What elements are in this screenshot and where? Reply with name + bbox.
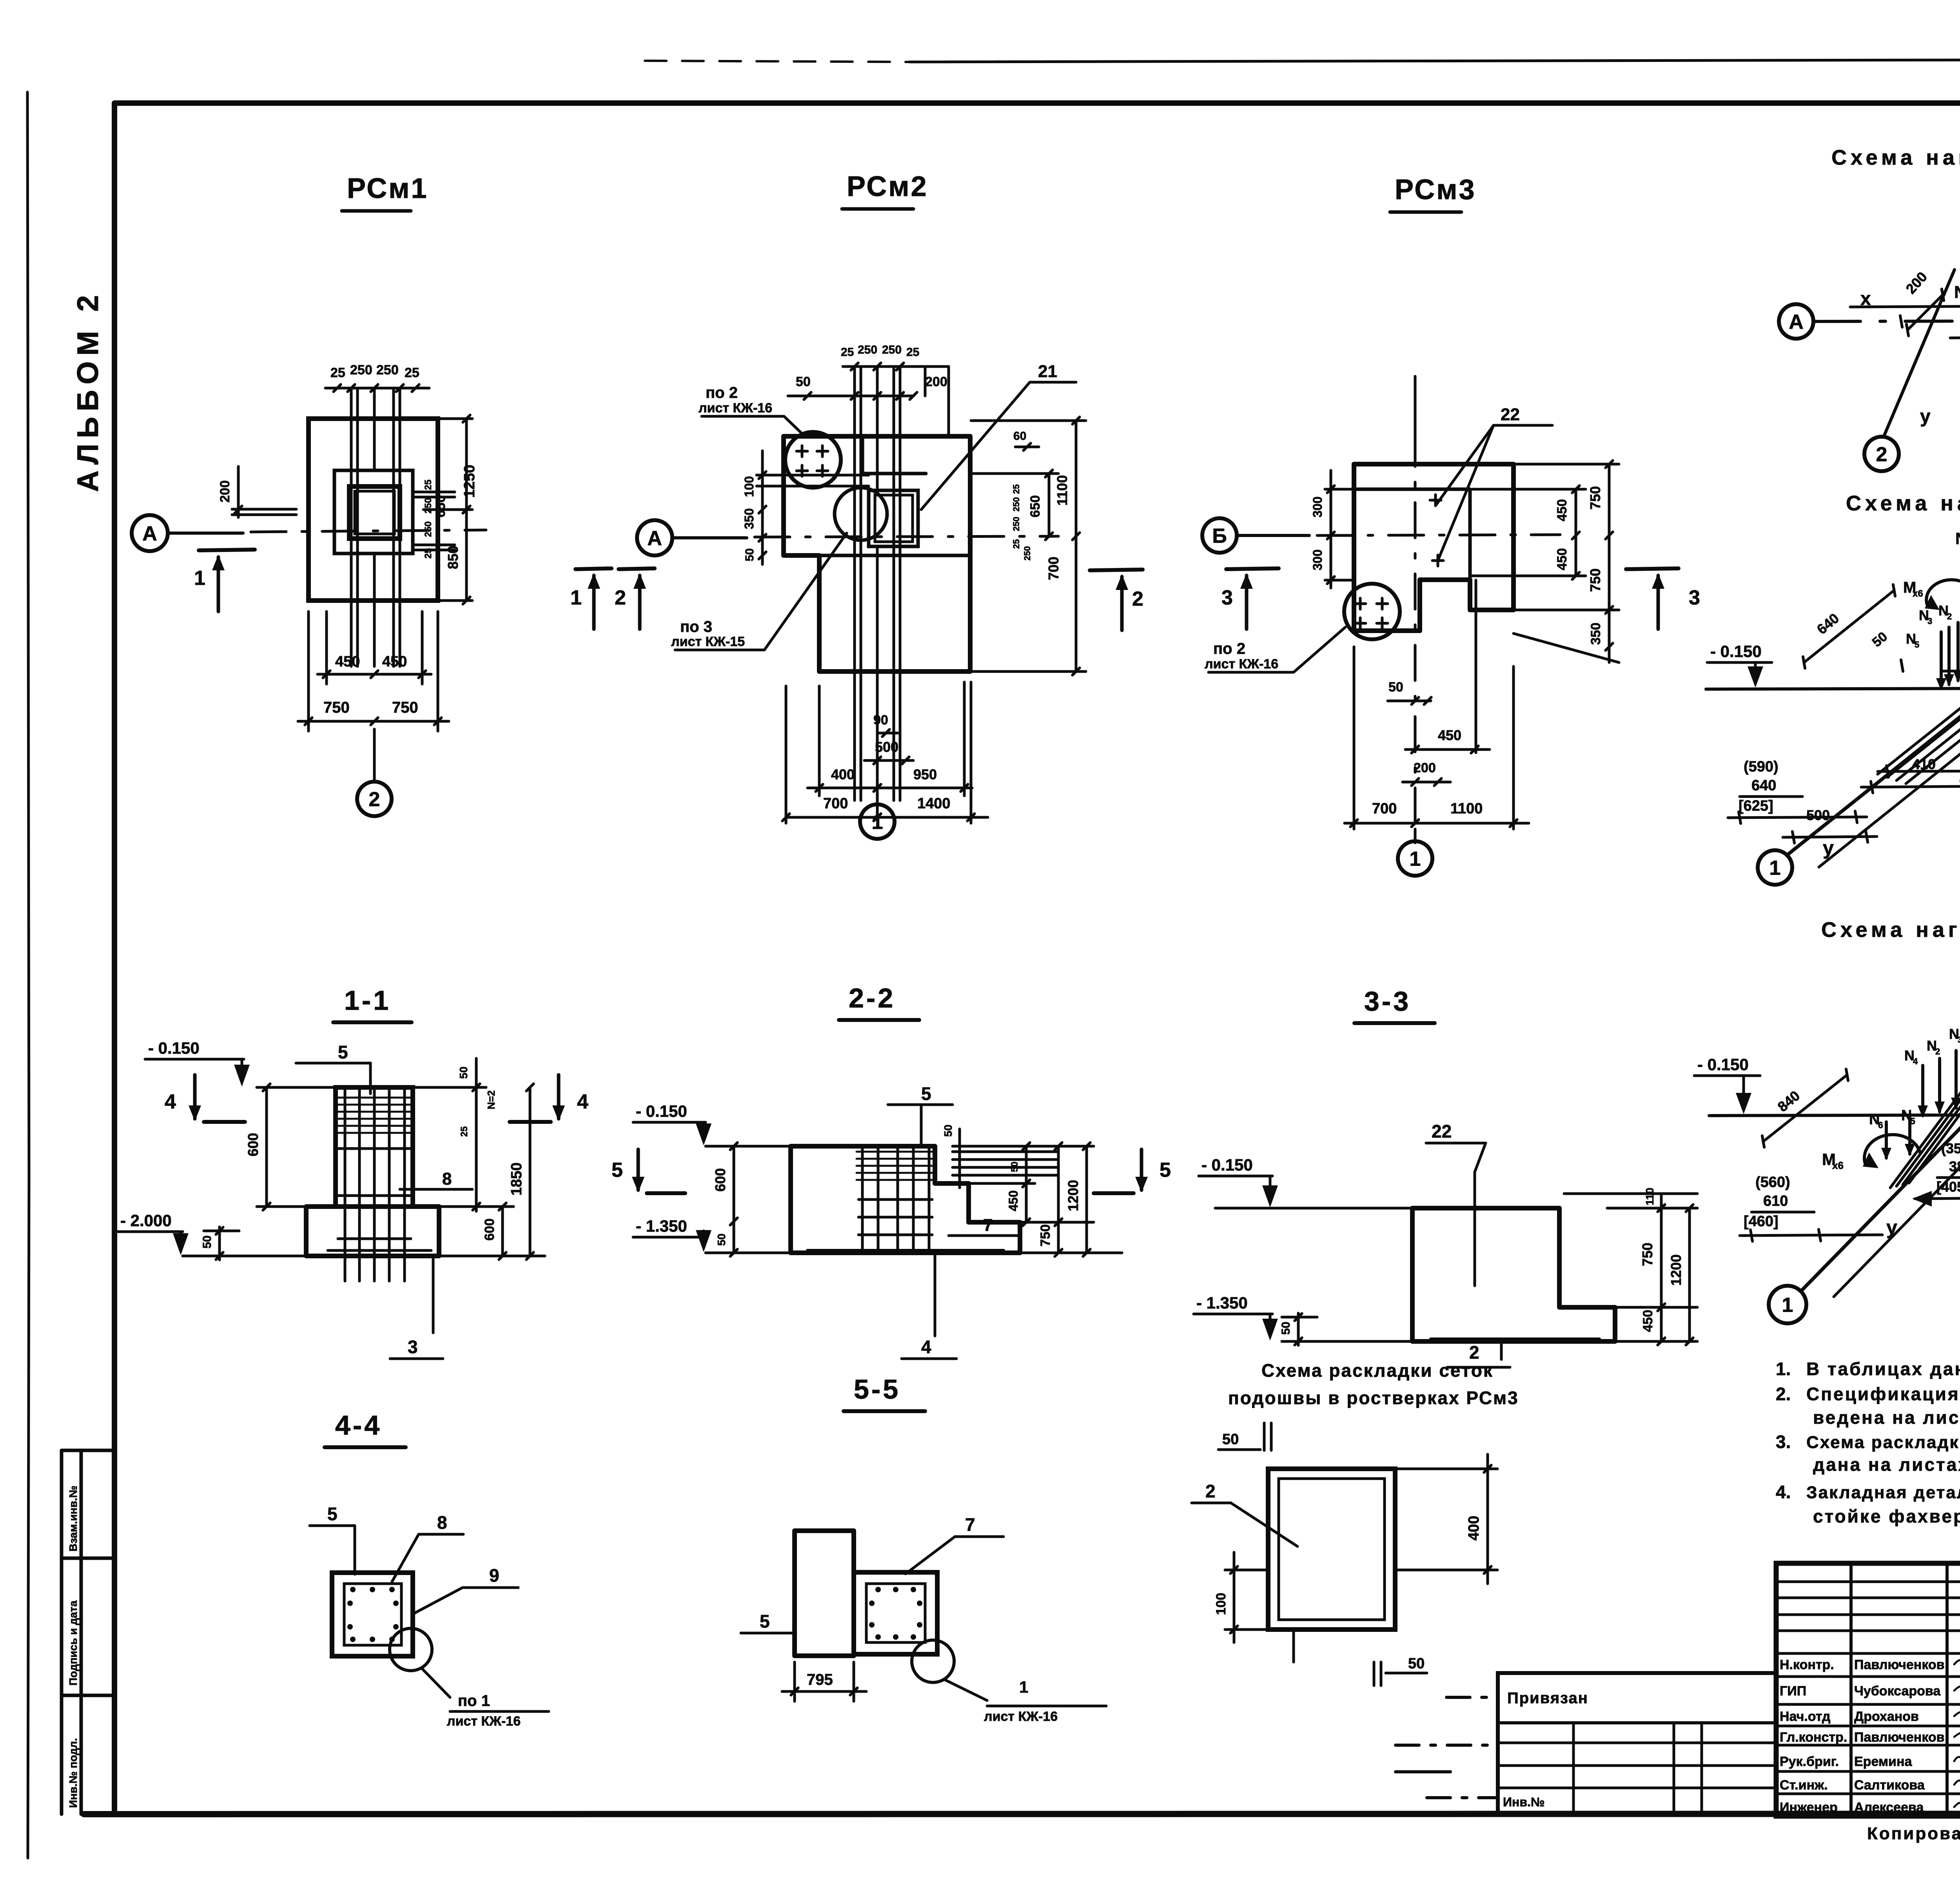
svg-text:2: 2: [1876, 443, 1887, 466]
svg-text:110: 110: [1644, 1188, 1656, 1205]
svg-text:АЛЬБОМ 2: АЛЬБОМ 2: [71, 290, 105, 492]
plan РСм1 outline: [309, 419, 438, 601]
svg-text:стойке фахверка СФ7.: стойке фахверка СФ7.: [1813, 1506, 1960, 1526]
svg-text:2: 2: [369, 788, 380, 811]
section 3-3 right dims: [1559, 1306, 1697, 1309]
plan РСм3 section marks 3: [1226, 568, 1279, 569]
plan РСм2 detail circle по2: [785, 432, 841, 488]
svg-text:250: 250: [882, 343, 902, 356]
svg-text:5: 5: [921, 1083, 931, 1104]
svg-text:5: 5: [1910, 1116, 1915, 1126]
svg-text:700: 700: [1045, 557, 1062, 580]
scheme3 pile bundle: [1890, 1024, 1960, 1188]
section 3-3 leader 2: [1500, 1342, 1503, 1359]
svg-text:795: 795: [807, 1671, 833, 1688]
svg-text:N: N: [1954, 283, 1960, 302]
plan РСм3 axis circle 1: [1414, 829, 1417, 843]
plan РСм2 axis А: [637, 520, 672, 555]
svg-text:250: 250: [1022, 546, 1032, 561]
svg-text:450: 450: [1555, 499, 1570, 521]
svg-text:3: 3: [1958, 1035, 1960, 1045]
svg-text:- 0.150: - 0.150: [1710, 642, 1762, 661]
svg-text:Схема нагрузок РСм2: Схема нагрузок РСм2: [1846, 492, 1960, 515]
svg-text:- 0.150: - 0.150: [636, 1102, 687, 1120]
section 3-3 small dim 50: [1282, 1316, 1317, 1319]
svg-text:(590): (590): [1744, 759, 1779, 775]
svg-text:8: 8: [437, 1512, 447, 1533]
svg-text:2: 2: [1132, 588, 1143, 610]
svg-text:1: 1: [872, 811, 883, 834]
svg-text:250: 250: [376, 363, 399, 377]
svg-text:дана на листах КЖ-15, 16.: дана на листах КЖ-15, 16.: [1813, 1454, 1960, 1475]
plan РСм3 axes: [1202, 518, 1237, 553]
svg-text:5: 5: [760, 1611, 770, 1631]
svg-text:Взам.инв.№: Взам.инв.№: [67, 1486, 79, 1552]
scheme1 axis ticks: [1900, 316, 1902, 327]
svg-text:1: 1: [1782, 1294, 1793, 1317]
svg-text:50: 50: [1279, 1322, 1292, 1335]
svg-text:x: x: [1860, 289, 1871, 309]
svg-text:Схема раскладки сеток подошвы: Схема раскладки сеток подошвы в ростверк…: [1806, 1433, 1960, 1452]
svg-text:РСм2: РСм2: [847, 171, 928, 202]
plan РСм3 detail circle по2: [1344, 584, 1400, 639]
mesh scheme dim 400: [1395, 1468, 1497, 1470]
title block left horizontals: [1776, 1581, 1960, 1583]
svg-text:50: 50: [1408, 1655, 1425, 1672]
svg-text:90: 90: [873, 713, 888, 728]
svg-text:4: 4: [1913, 1056, 1918, 1066]
svg-text:250: 250: [1011, 517, 1021, 531]
svg-text:1-1: 1-1: [344, 985, 391, 1016]
svg-text:Гл.констр.: Гл.констр.: [1780, 1730, 1847, 1745]
svg-text:2-2: 2-2: [849, 983, 895, 1013]
svg-text:450: 450: [1641, 1310, 1655, 1332]
svg-text:500: 500: [875, 739, 898, 755]
svg-text:Схема раскладки сеток: Схема раскладки сеток: [1261, 1360, 1494, 1381]
svg-text:Спецификация и выборка стали н: Спецификация и выборка стали на РСм1 ÷ Р…: [1806, 1384, 1960, 1404]
svg-text:Схема нагрузок РСм3: Схема нагрузок РСм3: [1821, 918, 1960, 942]
privyazan box: [1498, 1673, 1776, 1814]
plan РСм2 right dims: [971, 419, 1086, 422]
svg-text:- 0.150: - 0.150: [1697, 1055, 1749, 1074]
svg-text:25: 25: [841, 346, 854, 359]
svg-text:лист КЖ-16: лист КЖ-16: [1205, 657, 1278, 671]
section 1-1 foot: [306, 1207, 439, 1256]
svg-text:ведена на листах КЖ-20, 21.: ведена на листах КЖ-20, 21.: [1813, 1407, 1960, 1428]
section 1-1 right dims: [413, 1086, 486, 1089]
svg-text:[460]: [460]: [1744, 1213, 1779, 1230]
svg-text:25: 25: [423, 479, 434, 490]
svg-text:Копировал:: Копировал:: [1867, 1824, 1960, 1843]
svg-text:650: 650: [1028, 495, 1043, 517]
svg-text:50: 50: [743, 548, 756, 561]
svg-text:[405]: [405]: [1936, 1179, 1960, 1195]
svg-text:Еремина: Еремина: [1854, 1754, 1912, 1769]
svg-text:2: 2: [1935, 1047, 1940, 1056]
mesh scheme dim 50 bottom: [1373, 1662, 1376, 1686]
svg-text:3: 3: [1221, 586, 1233, 609]
svg-text:380: 380: [1949, 1158, 1960, 1174]
plan РСм2 bottom dims: [877, 732, 898, 735]
svg-text:лист КЖ-16: лист КЖ-16: [984, 1709, 1058, 1724]
svg-text:Закладная деталь поз. 21 прива: Закладная деталь поз. 21 приваривается к…: [1806, 1483, 1960, 1502]
svg-text:700: 700: [823, 795, 848, 812]
svg-text:1200: 1200: [1668, 1254, 1684, 1286]
plan РСм3 right dims 450 450 750 750 350: [1514, 463, 1619, 466]
svg-text:1400: 1400: [917, 795, 951, 812]
svg-text:500: 500: [1806, 807, 1830, 823]
svg-text:7: 7: [983, 1216, 993, 1235]
plan РСм1 axis circle 2: [373, 729, 376, 782]
plan РСм2 column plate: [869, 490, 918, 546]
svg-text:(560): (560): [1755, 1174, 1790, 1190]
svg-text:1: 1: [1019, 1678, 1028, 1696]
svg-text:350: 350: [742, 508, 756, 529]
svg-text:750: 750: [1587, 486, 1603, 510]
section 1-1 left dim 600: [257, 1086, 333, 1089]
svg-text:Павлюченков: Павлюченков: [1854, 1657, 1945, 1672]
section 1-1 leader 3: [432, 1257, 435, 1333]
mesh scheme rectangle: [1268, 1469, 1395, 1630]
plan РСм1 top dimension 25 250 250 25: [325, 387, 429, 390]
svg-text:3: 3: [408, 1337, 418, 1357]
scheme1 axis А: [1779, 304, 1813, 339]
plan РСм1 offset dim 200: [232, 508, 296, 511]
plan РСм1 bottom dims 450 450 750 750: [325, 612, 328, 684]
section 3-3 outline: [1412, 1208, 1615, 1341]
svg-text:650: 650: [433, 495, 448, 517]
svg-text:2: 2: [1947, 612, 1952, 621]
svg-text:50: 50: [457, 1067, 470, 1079]
scheme2 main diagonal: [1787, 563, 1960, 855]
scheme2 circle 1: [1758, 850, 1792, 885]
svg-text:3-3: 3-3: [1364, 986, 1411, 1016]
section 2-2 right dims: [969, 1182, 1035, 1185]
svg-text:N=2: N=2: [485, 1091, 497, 1109]
section 2-2 leader 4: [934, 1254, 936, 1336]
svg-text:4: 4: [577, 1091, 588, 1113]
section 5-5 dim 795: [793, 1662, 796, 1701]
svg-text:200: 200: [925, 374, 947, 389]
scheme3 dim 840: [1763, 1075, 1847, 1141]
section 5-5 outline left part: [795, 1531, 854, 1656]
plan РСм3 left dims 300 300: [1325, 488, 1355, 491]
svg-text:2: 2: [615, 586, 626, 609]
svg-text:по 2: по 2: [1213, 640, 1245, 657]
svg-text:5: 5: [338, 1042, 348, 1062]
svg-text:25: 25: [1011, 539, 1021, 549]
section 4-4 square: [332, 1573, 413, 1656]
plan РСм2 top dims: [788, 395, 913, 397]
svg-text:60: 60: [1013, 430, 1026, 443]
svg-text:50: 50: [796, 374, 811, 389]
plan РСм1 axis А: [132, 515, 168, 551]
svg-text:1100: 1100: [1450, 800, 1483, 817]
section 4-4 rebar dots: [350, 1587, 356, 1592]
svg-text:5: 5: [612, 1159, 623, 1181]
svg-text:450: 450: [1006, 1190, 1020, 1211]
left stamp column: [62, 1450, 114, 1814]
svg-text:Привязан: Привязан: [1507, 1689, 1588, 1707]
svg-text:1: 1: [1410, 848, 1421, 871]
svg-text:4.: 4.: [1776, 1482, 1791, 1502]
svg-text:[625]: [625]: [1739, 798, 1773, 814]
scheme3 main diagonal: [1802, 975, 1960, 1290]
svg-text:4: 4: [165, 1091, 176, 1113]
svg-text:Алексеева: Алексеева: [1854, 1800, 1924, 1815]
svg-text:4: 4: [921, 1337, 931, 1357]
svg-text:- 2.000: - 2.000: [120, 1211, 172, 1230]
svg-text:3: 3: [1689, 586, 1700, 609]
plan РСм1 rebar verticals: [350, 388, 353, 666]
svg-text:400: 400: [1466, 1516, 1482, 1541]
svg-text:3.: 3.: [1776, 1432, 1791, 1452]
svg-text:y: y: [1920, 406, 1931, 427]
svg-text:1850: 1850: [508, 1162, 525, 1196]
svg-text:- 1.350: - 1.350: [1196, 1294, 1248, 1312]
svg-text:Подпись и дата: Подпись и дата: [67, 1601, 79, 1686]
svg-text:Рук.бриг.: Рук.бриг.: [1780, 1754, 1839, 1769]
section 2-2 outline: [791, 1146, 1020, 1253]
section 2-2 top rebar lines right: [953, 1151, 1058, 1153]
svg-text:А: А: [142, 523, 157, 545]
svg-text:50: 50: [942, 1125, 954, 1137]
svg-text:50: 50: [1222, 1431, 1239, 1448]
svg-text:лист КЖ-16: лист КЖ-16: [699, 401, 772, 416]
svg-text:N: N: [1955, 529, 1960, 548]
svg-text:Инв.№: Инв.№: [1503, 1795, 1545, 1809]
svg-text:А: А: [1789, 311, 1804, 334]
svg-text:25: 25: [423, 548, 434, 559]
plan РСм3 bottom dims: [1388, 700, 1431, 702]
svg-text:100: 100: [742, 476, 756, 497]
plan РСм2 axis circle 1: [876, 804, 879, 817]
svg-text:Н.контр.: Н.контр.: [1780, 1657, 1834, 1672]
svg-text:450: 450: [1555, 548, 1570, 570]
plan РСм2 central detail circle по3: [835, 488, 887, 540]
svg-text:5: 5: [1160, 1159, 1171, 1181]
svg-text:1: 1: [1769, 857, 1781, 880]
svg-text:21: 21: [1038, 362, 1057, 381]
svg-text:640: 640: [1751, 777, 1776, 794]
svg-text:2: 2: [1205, 1481, 1216, 1501]
svg-text:9: 9: [489, 1565, 499, 1586]
svg-text:600: 600: [712, 1168, 728, 1192]
section 4-4 detail circle: [390, 1628, 432, 1671]
title block frame: [1776, 1563, 1960, 1816]
scheme1 dim 200: [1907, 295, 1943, 330]
svg-text:В таблицах даны нормативные на: В таблицах даны нормативные нагрузки.: [1806, 1359, 1960, 1379]
svg-text:200: 200: [1414, 760, 1436, 775]
svg-text:250: 250: [858, 343, 877, 356]
svg-text:3: 3: [1927, 616, 1932, 626]
svg-text:750: 750: [392, 699, 418, 716]
svg-text:750: 750: [1038, 1224, 1053, 1247]
svg-text:1200: 1200: [1065, 1180, 1081, 1211]
svg-text:200: 200: [218, 480, 232, 503]
mesh scheme dim 100 left: [1225, 1569, 1268, 1572]
plan РСм2 rebar verticals: [853, 367, 856, 800]
svg-text:1.: 1.: [1776, 1359, 1791, 1379]
scheme2 ground line: [1706, 688, 1960, 689]
svg-text:750: 750: [323, 699, 350, 716]
svg-text:300: 300: [1310, 550, 1325, 570]
svg-text:x6: x6: [1832, 1160, 1844, 1171]
svg-text:- 0.150: - 0.150: [1201, 1156, 1253, 1174]
svg-text:50: 50: [1009, 1161, 1020, 1172]
svg-text:подошвы в ростверках РСм3: подошвы в ростверках РСм3: [1228, 1388, 1519, 1408]
plan РСм1 right dimensions: [465, 419, 468, 601]
svg-text:25: 25: [405, 365, 419, 380]
svg-text:100: 100: [1214, 1593, 1229, 1615]
svg-text:600: 600: [482, 1218, 497, 1241]
svg-text:Нач.отд: Нач.отд: [1780, 1709, 1831, 1724]
svg-text:по 1: по 1: [458, 1692, 490, 1709]
svg-text:50: 50: [715, 1234, 728, 1246]
section 5-5 detail circle: [912, 1640, 954, 1682]
title block verticals: [1849, 1563, 1853, 1816]
section 1-1 column: [336, 1087, 413, 1207]
svg-text:Салтикова: Салтикова: [1854, 1778, 1925, 1793]
svg-text:5: 5: [327, 1504, 338, 1524]
section 5-5 square with rebar: [854, 1572, 937, 1654]
section 3-3 top line right: [1564, 1192, 1697, 1195]
svg-text:Схема нагрузок РСм1: Схема нагрузок РСм1: [1831, 146, 1960, 169]
plan РСм2 inner step for plate 21: [862, 436, 926, 474]
svg-text:450: 450: [382, 653, 407, 670]
svg-text:610: 610: [1763, 1193, 1788, 1209]
section 2-2 rebar cage: [861, 1149, 864, 1251]
svg-text:700: 700: [1372, 800, 1397, 817]
svg-text:x6: x6: [1913, 588, 1923, 599]
section 2-2 left dim 600 50: [725, 1145, 788, 1148]
svg-text:300: 300: [1310, 497, 1325, 517]
svg-text:РСм1: РСм1: [347, 173, 428, 204]
svg-text:1: 1: [194, 567, 205, 590]
plan РСм2 outline upper: [784, 436, 970, 671]
plan РСм1 column: [349, 486, 400, 539]
svg-text:450: 450: [1438, 727, 1461, 743]
svg-text:Павлюченков: Павлюченков: [1854, 1730, 1945, 1745]
svg-text:750: 750: [1639, 1243, 1655, 1266]
svg-text:А: А: [647, 527, 662, 550]
scheme2 pile bundle: [1878, 635, 1960, 774]
svg-text:8: 8: [442, 1169, 452, 1189]
scheme3 ground line: [1709, 1115, 1960, 1116]
svg-text:лист КЖ-16: лист КЖ-16: [447, 1714, 521, 1729]
svg-text:Инженер: Инженер: [1780, 1800, 1838, 1815]
svg-text:50: 50: [201, 1236, 214, 1249]
svg-text:6: 6: [1878, 1120, 1883, 1130]
svg-text:25: 25: [906, 346, 919, 359]
section 1-1 bottom-left dim 50: [204, 1230, 239, 1232]
svg-text:250: 250: [350, 363, 372, 377]
svg-text:Дроханов: Дроханов: [1854, 1709, 1919, 1724]
scheme2 load arrows cluster: [1940, 632, 1943, 688]
scheme3 Mx6 arc: [1864, 1134, 1920, 1163]
svg-text:22: 22: [1432, 1121, 1452, 1141]
svg-text:ГИП: ГИП: [1780, 1684, 1806, 1699]
scheme2 dim 640 upper left: [1804, 590, 1894, 662]
svg-text:450: 450: [335, 653, 360, 670]
svg-text:по 3: по 3: [680, 618, 712, 635]
plan РСм1 inner dim 650: [413, 491, 455, 494]
svg-text:РСм3: РСм3: [1395, 174, 1476, 205]
svg-text:350: 350: [1588, 622, 1603, 645]
svg-text:250: 250: [1011, 497, 1021, 512]
plan РСм3 outline: [1354, 464, 1514, 631]
svg-text:4-4: 4-4: [335, 1410, 382, 1441]
svg-text:1100: 1100: [1054, 475, 1070, 506]
svg-text:(355): (355): [1941, 1140, 1960, 1156]
scheme1 y axis diagonal: [1884, 270, 1955, 435]
scheme1 beam lines: [1850, 306, 1960, 307]
svg-text:400: 400: [831, 766, 855, 782]
svg-text:Ст.инж.: Ст.инж.: [1780, 1778, 1828, 1793]
svg-text:- 1.350: - 1.350: [636, 1217, 687, 1235]
svg-text:50: 50: [1388, 680, 1403, 695]
svg-text:25: 25: [330, 365, 345, 380]
svg-text:1250: 1250: [461, 465, 478, 498]
section 1-1 rebar cage: [344, 1090, 347, 1281]
svg-text:2.: 2.: [1776, 1384, 1791, 1404]
plan РСм1 right marks 1 2 / РСм2 left: [575, 568, 612, 569]
svg-text:25: 25: [1011, 485, 1021, 494]
svg-text:Чубоксарова: Чубоксарова: [1854, 1684, 1941, 1699]
svg-text:Б: Б: [1212, 525, 1227, 548]
svg-text:600: 600: [245, 1133, 261, 1156]
svg-text:750: 750: [1587, 568, 1603, 592]
svg-text:25: 25: [459, 1126, 470, 1137]
svg-text:лист КЖ-15: лист КЖ-15: [671, 634, 745, 649]
scheme3 load arrows: [1921, 1065, 1924, 1116]
scheme3 circle 1: [1769, 1286, 1806, 1323]
svg-text:5: 5: [1915, 640, 1919, 650]
svg-text:- 0.150: - 0.150: [148, 1039, 200, 1057]
svg-text:1: 1: [570, 586, 582, 609]
svg-text:410: 410: [1912, 756, 1936, 772]
svg-text:по 2: по 2: [706, 384, 738, 401]
svg-text:950: 950: [913, 766, 937, 782]
svg-text:y: y: [1823, 837, 1834, 859]
svg-text:5-5: 5-5: [854, 1374, 900, 1405]
svg-text:Инв.№ подл.: Инв.№ подл.: [67, 1738, 79, 1808]
plan РСм1 section marks 1 2: [199, 550, 255, 550]
fold mark dashes left of title block: [1446, 1696, 1498, 1699]
svg-text:2: 2: [1469, 1342, 1479, 1363]
svg-text:22: 22: [1501, 405, 1520, 424]
sheet frame: [27, 92, 29, 1858]
svg-text:7: 7: [965, 1514, 975, 1535]
plan РСм2 left dims 100 350 50: [757, 474, 869, 477]
svg-text:250: 250: [423, 498, 434, 514]
svg-text:y: y: [1886, 1216, 1897, 1238]
